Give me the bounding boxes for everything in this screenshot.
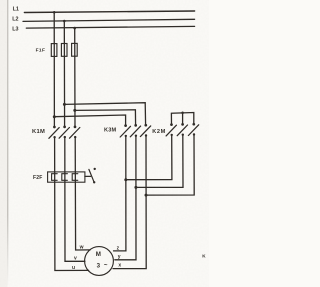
junction K3M/K2M node z bbox=[124, 178, 127, 181]
overload F2F heater element 2 bbox=[62, 174, 68, 181]
contactor K3M pole 2 contact bbox=[130, 124, 140, 137]
wire branch C to K3M middle bbox=[75, 110, 136, 125]
wire K3M pole1 down to z-corner bbox=[114, 136, 126, 251]
junction branch A bbox=[53, 115, 56, 118]
wire phase C K1M to F2F to w-corner bbox=[75, 137, 90, 250]
overload F2F trip contact dot upper bbox=[94, 168, 96, 170]
star bridge middle drop bbox=[182, 113, 184, 124]
star bridge bar above K2M bbox=[171, 113, 193, 125]
wire K2M pole1 to node z bbox=[126, 135, 172, 180]
junction branch C bbox=[73, 109, 76, 112]
overload F2F trip linkage stub bbox=[85, 175, 91, 177]
wire K3M pole2 down to y-corner bbox=[115, 136, 136, 260]
contactor K2M pole 2 contact bbox=[177, 123, 187, 136]
wire branch B to K3M right bbox=[64, 103, 145, 125]
junction K3M/K2M node y bbox=[134, 186, 137, 189]
wire phase A vertical top bbox=[53, 12, 55, 127]
wire phase C vertical top bbox=[74, 28, 76, 127]
wire K2M pole2 to node y bbox=[136, 135, 183, 188]
fuse F1F pole 3 bbox=[72, 43, 78, 56]
contactor K1M pole 3 contact bbox=[70, 126, 80, 139]
wire phase B K1M to F2F to v-corner bbox=[65, 137, 85, 261]
wire L2 bbox=[23, 19, 195, 21]
wire branch A to K3M left bbox=[54, 115, 125, 125]
overload F2F trip contact blade bbox=[89, 169, 94, 182]
wire K2M pole3 to node x bbox=[146, 135, 194, 196]
contactor K1M pole 2 contact bbox=[59, 126, 69, 139]
overload F2F trip contact dot lower bbox=[93, 181, 95, 183]
contactor K3M pole 1 contact bbox=[120, 124, 130, 137]
overload relay F2F box bbox=[48, 172, 85, 182]
contactor K3M pole 3 contact bbox=[140, 124, 150, 137]
overload F2F heater element 3 bbox=[72, 174, 78, 181]
overload F2F heater element 1 bbox=[52, 174, 58, 181]
junction K3M/K2M node x bbox=[145, 194, 148, 197]
fuse F1F pole 2 bbox=[61, 44, 67, 57]
wire phase A K1M to F2F to u-corner bbox=[55, 137, 89, 270]
wire L3 bbox=[26, 26, 194, 28]
wire K3M pole3 down to x-corner bbox=[113, 136, 146, 269]
motor M circle bbox=[85, 247, 114, 276]
fuse F1F pole 1 bbox=[51, 44, 57, 57]
wire L1 bbox=[24, 11, 194, 13]
junction L2 phase B bbox=[63, 20, 66, 23]
wire phase B vertical top bbox=[63, 21, 65, 127]
contactor K2M pole 1 contact bbox=[166, 123, 176, 136]
contactor K2M pole 3 contact bbox=[188, 123, 198, 136]
junction L3 phase C bbox=[73, 27, 76, 30]
contactor K1M pole 1 contact bbox=[49, 126, 59, 139]
junction star bar middle bbox=[181, 112, 184, 115]
junction L1 phase A bbox=[53, 11, 56, 14]
junction branch B bbox=[63, 103, 66, 106]
